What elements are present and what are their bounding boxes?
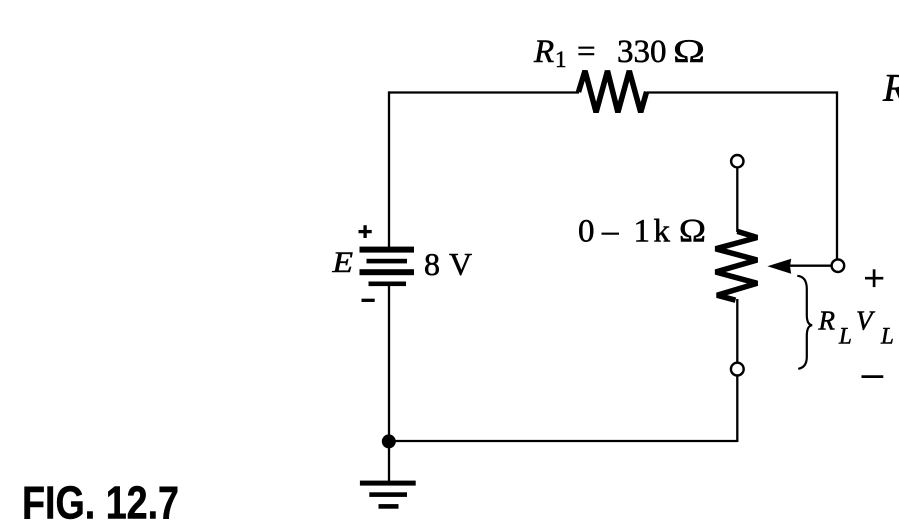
svg-text:Ω: Ω (673, 34, 706, 70)
svg-text:E: E (331, 246, 353, 279)
svg-text:8V: 8V (424, 246, 472, 282)
svg-text:Ω: Ω (679, 212, 707, 249)
svg-text:RLVL: RLVL (818, 306, 894, 349)
svg-text:0–1k: 0–1k (578, 214, 671, 250)
svg-text:FIG. 12.7: FIG. 12.7 (22, 477, 179, 529)
svg-text:R1=330: R1=330 (533, 34, 667, 72)
svg-text:R: R (882, 67, 899, 110)
